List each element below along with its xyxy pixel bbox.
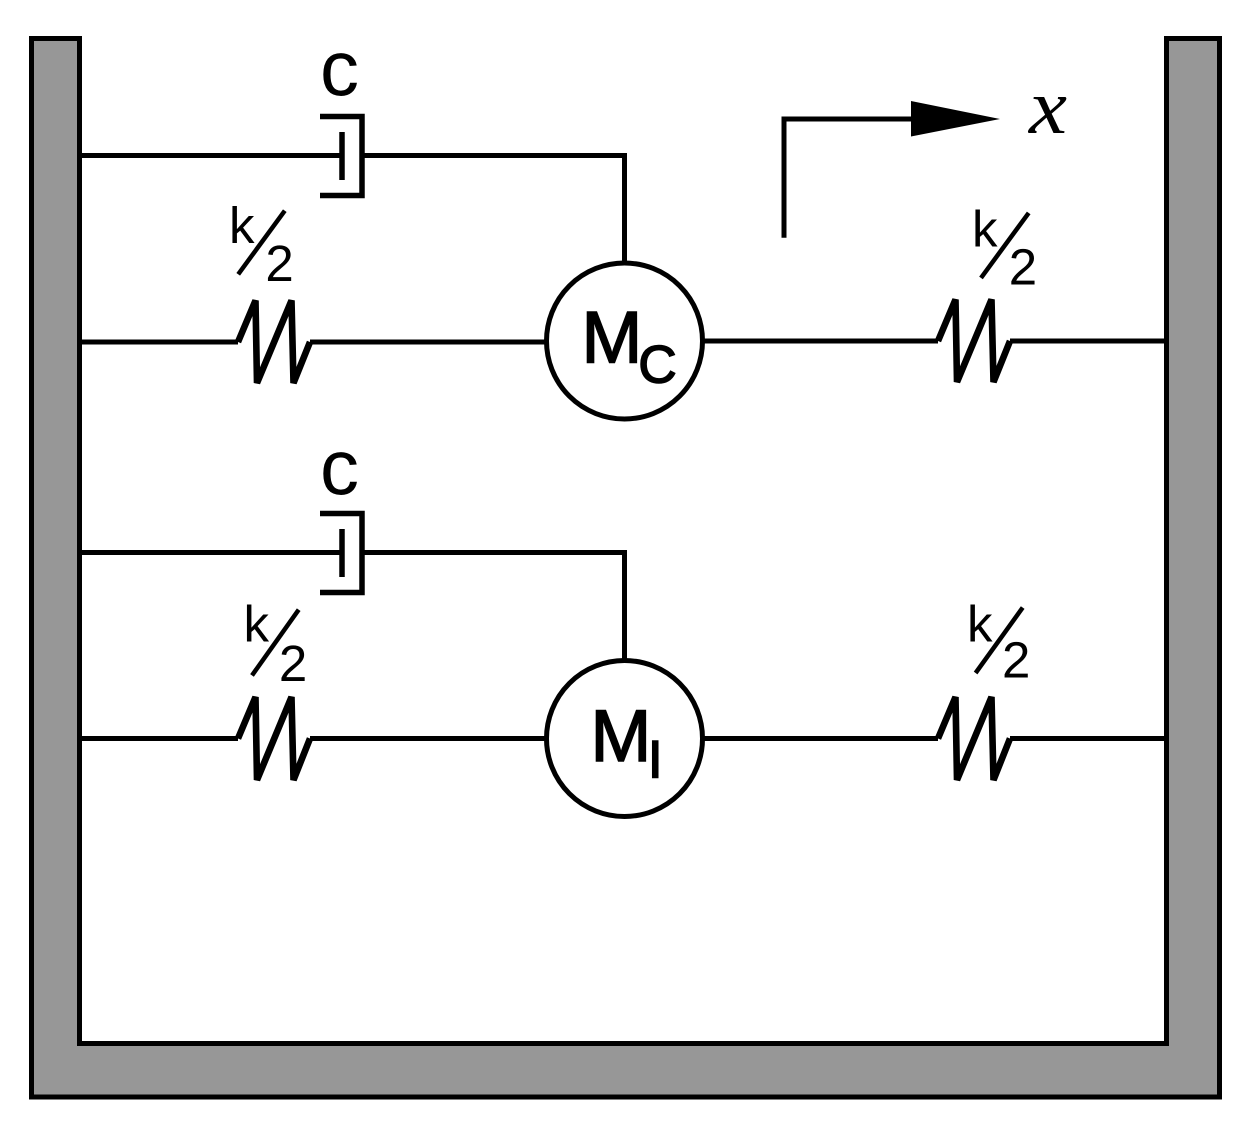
wire: wall to damper piston (top) bbox=[80, 153, 343, 158]
wire: damper to mass M_I top bbox=[362, 553, 625, 662]
wire: wall to damper piston (bottom) bbox=[80, 550, 343, 555]
svg-text:c: c bbox=[320, 423, 359, 511]
svg-text:k: k bbox=[244, 596, 270, 653]
svg-text:k: k bbox=[229, 197, 255, 254]
spring k/2 top-right zigzag bbox=[938, 300, 1010, 383]
svg-text:c: c bbox=[320, 24, 359, 112]
wire: damper to mass M_C top bbox=[362, 156, 625, 264]
label k/2 bottom-right bbox=[967, 596, 1030, 689]
wire: mass M_I to right spring bbox=[701, 736, 938, 741]
svg-text:2: 2 bbox=[279, 635, 307, 692]
mass M_I circle bbox=[547, 661, 703, 817]
wire: right spring to right wall (bottom) bbox=[1010, 736, 1167, 741]
spring k/2 top-left zigzag bbox=[238, 301, 310, 384]
svg-text:2: 2 bbox=[1009, 239, 1037, 296]
label k/2 top-left bbox=[229, 197, 294, 292]
svg-text:k: k bbox=[967, 596, 993, 653]
svg-text:2: 2 bbox=[1002, 632, 1030, 689]
svg-text:x: x bbox=[1028, 63, 1068, 150]
damper C2 piston bbox=[339, 529, 345, 577]
damper C1 piston bbox=[339, 132, 345, 180]
damper C2 cylinder bbox=[320, 514, 362, 593]
spring k/2 bottom-left zigzag bbox=[238, 697, 310, 780]
x-axis reference arrow bbox=[784, 119, 920, 238]
arrowhead bbox=[911, 101, 1000, 137]
label k/2 top-right bbox=[972, 201, 1037, 296]
mass M_C circle bbox=[547, 263, 703, 419]
svg-text:k: k bbox=[972, 201, 998, 258]
wire: left spring to mass M_I bbox=[310, 736, 548, 741]
wire: mass M_C to right spring bbox=[701, 339, 938, 344]
wire: wall to left spring (top) bbox=[80, 340, 239, 345]
label k/2 bottom-left bbox=[244, 596, 308, 693]
svg-text:2: 2 bbox=[265, 235, 293, 292]
wire: wall to left spring (bottom) bbox=[80, 736, 239, 741]
spring k/2 bottom-right zigzag bbox=[938, 697, 1010, 780]
damper C1 cylinder bbox=[320, 117, 362, 196]
wire: left spring to mass M_C bbox=[310, 340, 548, 345]
wire: right spring to right wall (top) bbox=[1010, 339, 1167, 344]
